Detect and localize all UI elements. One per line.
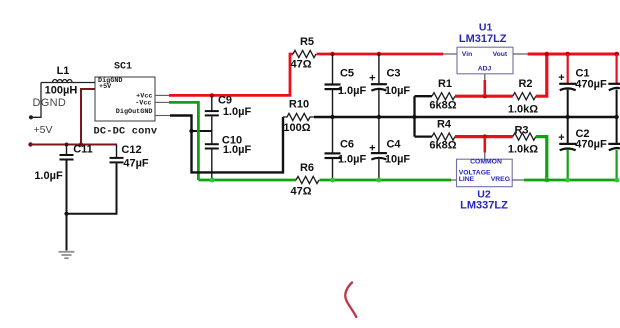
- svg-text:DGND: DGND: [33, 97, 67, 109]
- svg-text:470µF: 470µF: [575, 139, 607, 151]
- svg-text:1.0µF: 1.0µF: [34, 170, 63, 182]
- svg-text:LINE: LINE: [459, 176, 475, 183]
- svg-text:R2: R2: [518, 78, 532, 90]
- node junction green / R3: [544, 178, 549, 183]
- svg-text:47µF: 47µF: [123, 158, 149, 170]
- wire green rail to U2: [320, 179, 452, 182]
- svg-text:+: +: [369, 73, 375, 85]
- svg-text:-Vcc: -Vcc: [135, 99, 151, 107]
- resistor R3: [508, 125, 538, 156]
- wire to ground: [66, 214, 68, 251]
- node junction Vout / C1: [565, 52, 570, 57]
- capacitor C1 polarized: [558, 54, 607, 119]
- svg-text:DC-DC conv: DC-DC conv: [94, 125, 158, 137]
- svg-text:LM317LZ: LM317LZ: [459, 33, 507, 45]
- wire +Vcc red rail: [169, 54, 293, 95]
- resistor R10: [283, 99, 314, 135]
- svg-text:VREG: VREG: [491, 176, 510, 183]
- svg-text:47Ω: 47Ω: [290, 186, 311, 198]
- pin stub +Vcc: [155, 94, 170, 96]
- wire R1 to R2 red: [455, 95, 513, 98]
- pin stub U1 ADJ: [484, 74, 486, 81]
- wire +5V net from SC1 pin: [81, 89, 95, 145]
- svg-text:100Ω: 100Ω: [283, 122, 310, 134]
- svg-text:C11: C11: [73, 144, 93, 156]
- svg-text:1.0kΩ: 1.0kΩ: [508, 144, 538, 156]
- capacitor C10: [205, 131, 252, 180]
- node junction +Vcc / C9: [210, 93, 214, 97]
- capacitor C12: [67, 144, 149, 214]
- resistor R1: [415, 78, 457, 112]
- svg-text:1.0µF: 1.0µF: [223, 106, 252, 118]
- wire U2 COMMON pin: [483, 137, 486, 153]
- wire U1 ADJ pin: [483, 80, 486, 96]
- node junction ADJ: [483, 94, 487, 98]
- wire green rail right: [524, 179, 619, 182]
- node junction Vout / edge cap: [614, 52, 619, 57]
- capacitor C11: [34, 144, 92, 214]
- node junction +5V / SC1: [79, 143, 83, 147]
- capacitor C2 polarized: [558, 117, 607, 182]
- node junction mid rail / R1 R4: [412, 115, 416, 119]
- svg-text:+: +: [558, 72, 564, 84]
- capacitor C6: [325, 117, 367, 182]
- wire R4 to R3 red: [455, 135, 513, 138]
- svg-text:+5V: +5V: [34, 124, 53, 136]
- wire Vout red rail: [528, 53, 619, 56]
- resistor R4: [415, 119, 457, 152]
- svg-text:+5V: +5V: [99, 83, 112, 91]
- svg-text:U1: U1: [479, 22, 493, 34]
- wire +5V net horizontal: [31, 144, 118, 146]
- svg-text:C4: C4: [386, 139, 401, 151]
- svg-text:C9: C9: [218, 95, 232, 107]
- node +5V terminal: [28, 142, 32, 146]
- node junction +5V / C11: [65, 143, 69, 147]
- svg-text:100µH: 100µH: [45, 85, 78, 97]
- svg-text:R3: R3: [514, 125, 528, 137]
- svg-text:+: +: [369, 142, 375, 154]
- capacitor C4 polarized: [369, 117, 410, 182]
- svg-text:6k8Ω: 6k8Ω: [429, 139, 456, 151]
- svg-text:R10: R10: [289, 99, 309, 111]
- pin stub U1 Vin: [443, 53, 457, 55]
- svg-text:C6: C6: [340, 139, 354, 151]
- capacitor C3 polarized: [369, 52, 410, 119]
- capacitor C9: [205, 95, 252, 132]
- capacitor C5: [325, 52, 367, 119]
- node junction green / C10: [210, 178, 215, 183]
- svg-text:1.0µF: 1.0µF: [223, 144, 252, 156]
- inductor L1: [41, 65, 95, 97]
- ground: [59, 252, 75, 258]
- node junction C11/C12 ground: [64, 212, 68, 216]
- wire -Vcc green: [169, 102, 198, 180]
- pin stub -Vcc: [155, 101, 170, 103]
- resistor R5: [290, 36, 316, 71]
- wire R1/R4 vertical from mid rail: [413, 96, 415, 136]
- pin stub U2 COMMON: [484, 152, 486, 159]
- svg-text:C12: C12: [121, 144, 141, 156]
- wire L1 to DGND terminal: [31, 83, 41, 118]
- svg-text:+: +: [558, 132, 564, 144]
- op-amp U2 LM337LZ: [457, 159, 513, 212]
- pin stub U2 VOLTAGE LINE: [450, 179, 457, 181]
- svg-text:L1: L1: [57, 65, 70, 77]
- svg-text:DigOutGND: DigOutGND: [116, 108, 153, 116]
- wire ground mid rail: [314, 116, 617, 118]
- pin stub U2 VREG: [512, 179, 525, 181]
- svg-text:ADJ: ADJ: [478, 65, 492, 72]
- svg-text:10µF: 10µF: [385, 85, 411, 97]
- svg-text:Vout: Vout: [493, 51, 508, 58]
- pin stub U1 Vout: [513, 53, 528, 55]
- svg-text:47Ω: 47Ω: [290, 59, 311, 71]
- svg-text:1.0kΩ: 1.0kΩ: [508, 104, 538, 116]
- capacitor edge top (cut off): [608, 54, 620, 119]
- svg-text:SC1: SC1: [114, 62, 132, 73]
- op-amp U1 LM317LZ: [457, 22, 513, 74]
- node DGND terminal: [29, 115, 33, 119]
- svg-text:1.0µF: 1.0µF: [338, 153, 367, 165]
- svg-text:R5: R5: [300, 36, 314, 48]
- capacitor edge bottom (cut off): [608, 117, 620, 182]
- svg-text:R6: R6: [300, 162, 314, 174]
- node junction U2 COMMON: [483, 134, 487, 138]
- svg-text:LM337LZ: LM337LZ: [460, 200, 508, 212]
- annotation red pen stroke: [345, 283, 356, 318]
- svg-text:1.0µF: 1.0µF: [338, 85, 367, 97]
- svg-text:6k8Ω: 6k8Ω: [429, 100, 456, 112]
- resistor R6: [290, 162, 319, 198]
- wire R3 to green rail: [536, 137, 547, 180]
- svg-text:C3: C3: [386, 68, 400, 80]
- wire red rail R5 to U1 Vin: [317, 53, 444, 56]
- wire R2 to Vout rail: [536, 54, 547, 96]
- wire C9/C10 midpoint to ground rail: [192, 130, 212, 132]
- wire green rail bottom left: [198, 179, 296, 182]
- node junction ground vertical: [189, 129, 193, 133]
- svg-text:C5: C5: [340, 68, 354, 80]
- node junction Vout / R2: [545, 52, 550, 57]
- wire DigOutGND black: [170, 116, 283, 173]
- svg-text:Vin: Vin: [462, 51, 472, 58]
- svg-text:470µF: 470µF: [575, 78, 607, 90]
- resistor R2: [508, 78, 538, 116]
- svg-text:10µF: 10µF: [385, 153, 411, 165]
- DC-DC converter SC1: [94, 62, 158, 138]
- svg-text:R1: R1: [438, 78, 452, 90]
- svg-text:R4: R4: [437, 119, 452, 131]
- svg-text:COMMON: COMMON: [470, 159, 502, 166]
- pin stub DigOutGND: [155, 115, 171, 117]
